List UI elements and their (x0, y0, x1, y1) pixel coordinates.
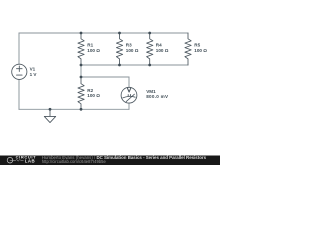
node dot ground (49, 108, 52, 111)
V1 plus sign (17, 66, 23, 72)
svg-text:100 Ω: 100 Ω (87, 48, 100, 53)
node dot R3 top (118, 32, 121, 35)
svg-text:1 V: 1 V (30, 72, 38, 77)
ground (44, 109, 55, 122)
svg-text:100 Ω: 100 Ω (87, 93, 100, 98)
VM1 scale tick 2 (130, 94, 132, 96)
svg-text:R1: R1 (87, 43, 93, 48)
node dot R3 bottom (118, 64, 121, 67)
svg-text:100 Ω: 100 Ω (126, 48, 139, 53)
VM1 needle (126, 94, 134, 101)
wire bottom rail (19, 108, 129, 110)
wire mid rail (81, 64, 188, 66)
resistor R2 (78, 77, 84, 109)
node dot R2 top (80, 76, 83, 79)
svg-text:http://circuitlab.com/c64e87r4: http://circuitlab.com/c64e87r49b5e (42, 159, 107, 164)
footer bar (0, 156, 220, 166)
wire left vertical (V1 top lead run) (18, 33, 20, 64)
wire voltmeter top drop (128, 77, 130, 87)
svg-text:LAB: LAB (25, 159, 35, 164)
svg-text:V1: V1 (30, 67, 36, 72)
resistor R5 (185, 33, 191, 65)
svg-text:800.0 mV: 800.0 mV (146, 94, 169, 99)
node dot R4 bottom (148, 64, 151, 67)
svg-text:100 Ω: 100 Ω (156, 48, 169, 53)
VM1 meter arc (123, 96, 135, 98)
svg-text:100 Ω: 100 Ω (194, 48, 207, 53)
resistor R4 (147, 33, 153, 65)
footer logo circuitlab (7, 155, 36, 164)
node dot R1 bottom (80, 64, 83, 67)
VM1 letter V (127, 88, 131, 92)
wire top rail (19, 32, 188, 34)
wire node column x81 mid-to-lower (80, 65, 82, 77)
svg-text:R4: R4 (156, 43, 162, 48)
node dot R4 top (148, 32, 151, 35)
node dot R2 bottom (80, 108, 83, 111)
node dot R1 top (80, 32, 83, 35)
resistor R1 (78, 33, 84, 65)
V1 minus sign (17, 74, 23, 76)
wire left vertical (V1 bottom lead run) (18, 80, 20, 110)
resistor R3 (116, 33, 122, 65)
svg-text:R3: R3 (126, 43, 132, 48)
voltage source V1 (12, 64, 27, 79)
wire lower rail to voltmeter (81, 76, 129, 78)
svg-text:R2: R2 (87, 88, 93, 93)
VM1 scale tick 1 (127, 95, 129, 97)
voltmeter VM1 (121, 87, 137, 103)
wire voltmeter bottom drop (128, 103, 130, 109)
svg-text:R5: R5 (194, 43, 200, 48)
